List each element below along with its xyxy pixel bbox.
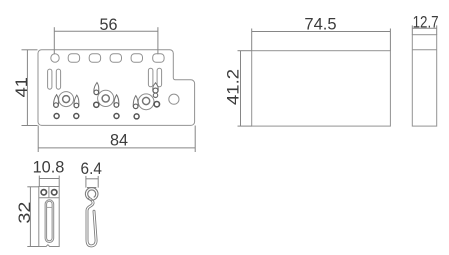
saddle 1 (bass) — [54, 92, 79, 119]
dimension 10.8 (saddle width) — [39, 176, 59, 187]
svg-text:74.5: 74.5 — [304, 14, 336, 33]
svg-text:56: 56 — [100, 15, 118, 34]
svg-text:41: 41 — [12, 77, 31, 97]
end view: block side profile — [412, 35, 436, 126]
side view: tremolo block front face — [252, 51, 391, 126]
saddle front view body — [39, 187, 59, 247]
mounting hole 1 (round) — [51, 54, 59, 62]
saddle 2 (middle) — [94, 83, 119, 119]
svg-text:10.8: 10.8 — [33, 158, 65, 177]
svg-text:6.4: 6.4 — [81, 159, 102, 178]
spring slot pair right — [148, 68, 161, 87]
dimension 12.7 (block thickness) — [412, 25, 436, 34]
mounting hole 3 (oval) — [89, 54, 100, 63]
mounting hole 2 (oval) — [68, 54, 79, 63]
saddle front view height-adjust screws — [41, 190, 57, 195]
svg-text:12.7: 12.7 — [413, 13, 439, 32]
dimension 56 (hole spacing, top) — [54, 27, 158, 54]
arm hole (right of plate) — [169, 94, 179, 104]
saddle front view intonation slot — [45, 200, 54, 243]
dimension 41 (plate depth, left) — [22, 50, 38, 126]
svg-text:41.2: 41.2 — [223, 69, 242, 105]
svg-text:32: 32 — [15, 202, 34, 224]
dimension 6.4 (saddle roll diameter) — [86, 176, 98, 188]
dimension 74.5 (block width) — [252, 29, 391, 51]
mounting hole 5 (oval) — [131, 54, 142, 63]
dimension 41.2 (block height) — [238, 51, 252, 126]
saddle side view: bent sheet hook profile — [85, 188, 98, 246]
saddle 3 (treble) — [133, 83, 159, 119]
dimension 32 (saddle length) — [27, 187, 39, 247]
dimension 84 (plate width, bottom) — [38, 126, 195, 153]
svg-text:84: 84 — [110, 130, 128, 149]
top view: tremolo base plate outline — [38, 50, 195, 126]
mounting hole 4 (oval) — [110, 54, 121, 63]
spring slot pair left — [48, 69, 61, 89]
mounting hole 6 (oval) — [153, 54, 164, 63]
